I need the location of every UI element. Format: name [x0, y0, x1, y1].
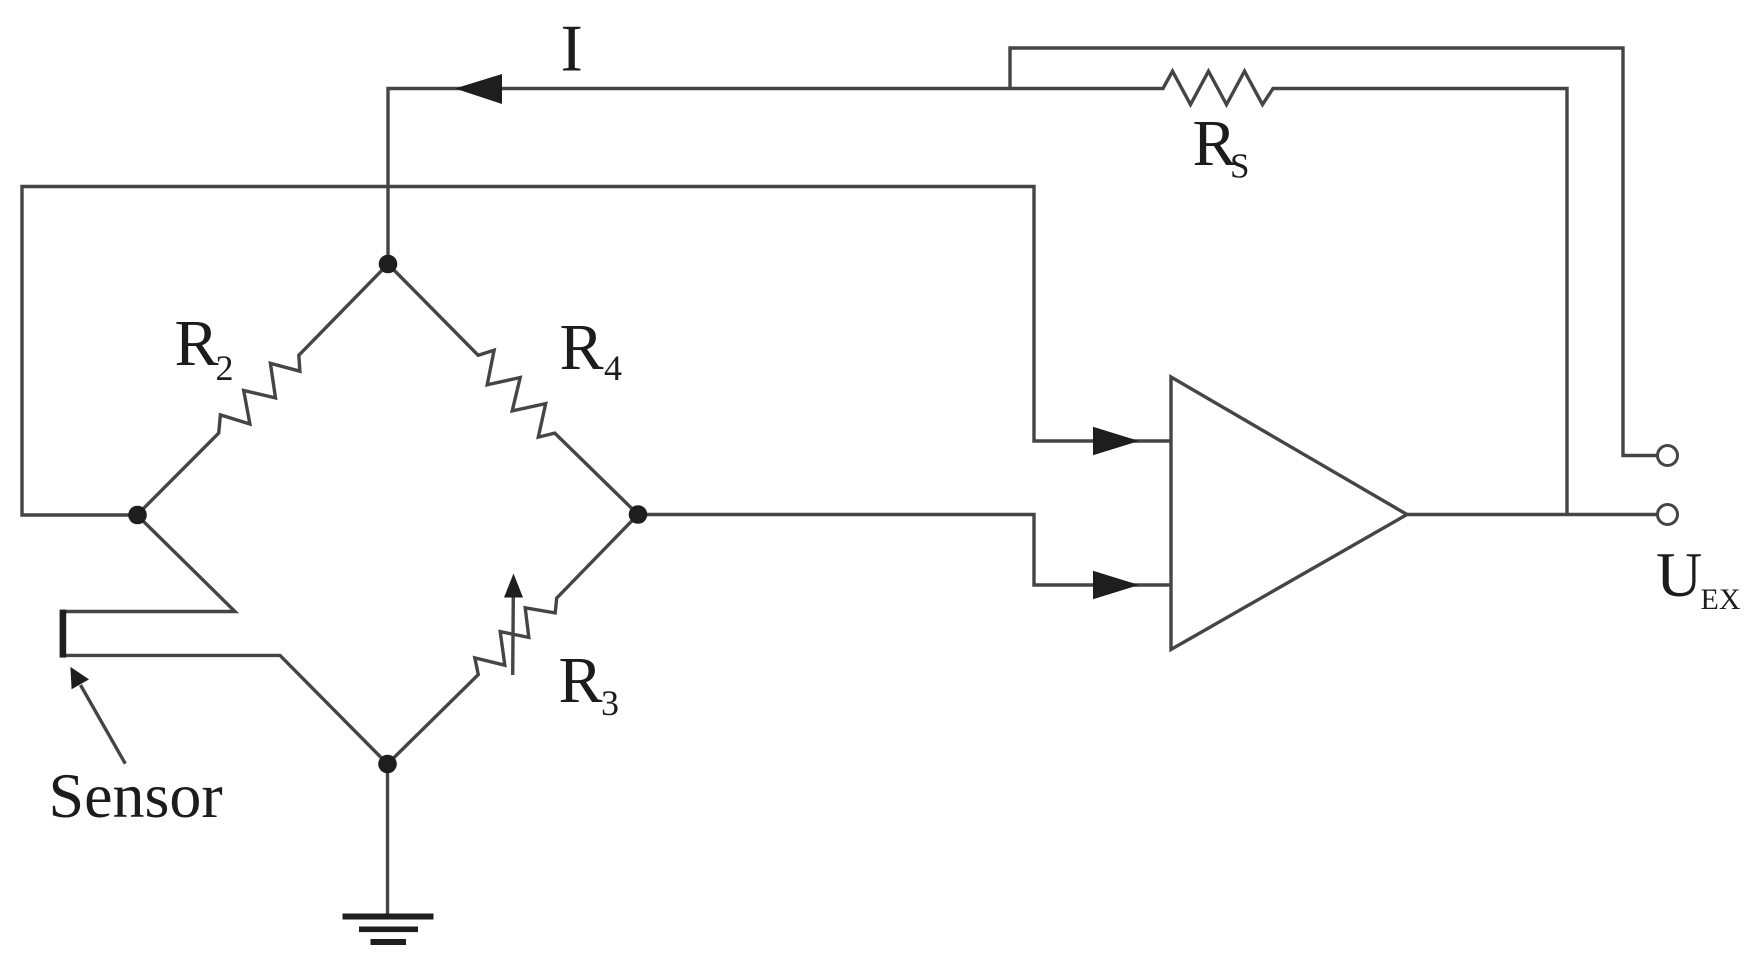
svg-text:R: R — [175, 307, 219, 380]
resistor R3 bridge leg: bottom node to right node — [388, 515, 639, 765]
node left — [128, 506, 147, 525]
output terminal circle upper — [1658, 446, 1678, 466]
resistor R2 bridge leg: left node to top node — [137, 264, 388, 515]
output terminal circle lower — [1658, 505, 1678, 525]
ground bar 3 — [371, 939, 407, 945]
ground bar 1 — [343, 914, 434, 920]
svg-text:R: R — [559, 644, 603, 717]
wire R3 arrow shaft — [511, 596, 515, 675]
wire ground stem — [386, 764, 389, 914]
svg-text:EX: EX — [1701, 583, 1741, 616]
svg-text:2: 2 — [216, 348, 234, 388]
svg-text:4: 4 — [604, 348, 622, 388]
arrowhead sensor pointer — [70, 667, 89, 689]
arrowhead R3 variable arrow — [504, 574, 523, 598]
svg-text:Sensor: Sensor — [49, 760, 223, 831]
wire RS bypass loop to upper terminal — [1010, 48, 1658, 456]
wire sensor pointer shaft — [81, 685, 126, 764]
svg-text:R: R — [560, 311, 604, 384]
wire top current path with resistor RS: bridge top node up, across right, down to output line — [388, 71, 1567, 514]
wire left excitation loop: left node to left rail up and across to op-amp + input — [22, 187, 1171, 516]
arrowhead current I (points left) — [455, 74, 502, 104]
svg-text:S: S — [1230, 147, 1249, 186]
wire sensor leg upper: left node diagonal down to sensor step — [62, 515, 235, 612]
resistor R4 bridge leg: top node to right node — [388, 264, 638, 515]
ground bar 2 — [359, 927, 418, 933]
wire sensor leg lower: sensor step to bottom node — [62, 655, 388, 764]
wire op-amp output to lower terminal — [1407, 513, 1658, 516]
node top — [379, 255, 398, 274]
node bottom — [378, 755, 397, 774]
wire bridge output: right node to op-amp - input — [638, 515, 1171, 586]
node right — [629, 505, 648, 524]
arrowhead op-amp input + — [1093, 427, 1139, 456]
arrowhead op-amp input - — [1093, 571, 1139, 600]
sensor bar (strain gauge element) — [60, 610, 67, 658]
op-amp U1 — [1171, 377, 1407, 650]
svg-text:3: 3 — [601, 683, 619, 723]
svg-text:I: I — [561, 12, 583, 86]
svg-text:U: U — [1656, 539, 1702, 610]
